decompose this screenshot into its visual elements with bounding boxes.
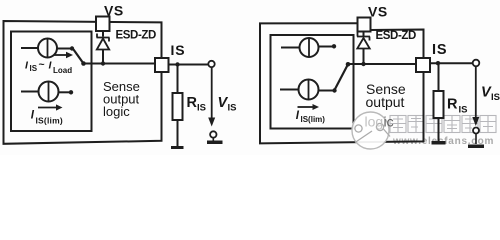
svg-text:VS: VS: [104, 3, 124, 19]
svg-text:IS: IS: [228, 103, 237, 114]
svg-text:R: R: [187, 95, 198, 111]
svg-text:~: ~: [39, 59, 45, 71]
svg-text:VS: VS: [368, 4, 388, 20]
svg-text:I: I: [49, 59, 53, 71]
svg-text:I: I: [25, 59, 29, 71]
svg-text:output: output: [366, 94, 405, 110]
svg-text:IS: IS: [197, 103, 206, 114]
svg-text:I: I: [31, 110, 35, 122]
svg-text:R: R: [447, 97, 458, 113]
svg-text:Load: Load: [53, 66, 72, 75]
svg-text:IS(lim): IS(lim): [301, 115, 326, 124]
svg-text:ic: ic: [384, 114, 394, 130]
svg-text:IS: IS: [171, 42, 186, 58]
svg-text:log: log: [365, 114, 384, 130]
svg-text:IS(lim): IS(lim): [36, 115, 63, 125]
svg-text:ESD-ZD: ESD-ZD: [376, 30, 417, 42]
svg-text:IS: IS: [30, 64, 38, 73]
svg-text:I: I: [296, 110, 300, 122]
svg-text:ESD-ZD: ESD-ZD: [116, 30, 157, 42]
svg-text:IS: IS: [491, 92, 500, 103]
svg-text:IS: IS: [459, 104, 468, 115]
svg-text:IS: IS: [432, 42, 447, 58]
svg-text:logic: logic: [103, 104, 130, 119]
